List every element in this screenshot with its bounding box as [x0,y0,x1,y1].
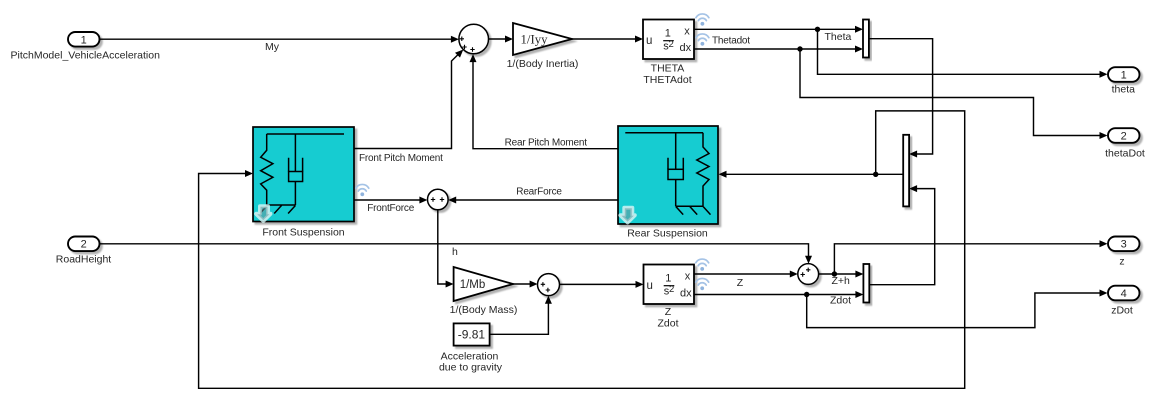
svg-text:PitchModel_VehicleAcceleration: PitchModel_VehicleAcceleration [11,50,161,62]
svg-text:2: 2 [669,39,674,50]
svg-text:u: u [647,280,653,292]
svg-text:x: x [684,26,690,38]
svg-text:3: 3 [1121,239,1127,251]
svg-text:dx: dx [680,42,692,54]
wire Thetadot dx output to mux [694,36,863,53]
junction on Zdot wire [804,292,809,297]
svg-text:2: 2 [1121,130,1127,142]
svg-text:Z: Z [665,306,672,318]
svg-text:FrontForce: FrontForce [367,203,415,214]
svg-text:Thetadot: Thetadot [712,36,750,47]
svg-text:2: 2 [81,239,87,251]
sum block forces [428,189,449,210]
outport 3 z [1108,237,1140,268]
outport 4 zDot [1108,286,1140,317]
inport 1 PitchModel_VehicleAcceleration [11,32,161,62]
subsystem Front Suspension [253,127,354,238]
svg-text:Zdot: Zdot [830,295,851,307]
svg-text:4: 4 [1121,288,1127,300]
wire constant to sum [490,296,552,335]
svg-text:-9.81: -9.81 [458,328,486,342]
wire gain 1/Mb to sum [513,281,538,288]
wire mux output up to state mux [869,185,934,285]
wire Zdot to mux [694,291,863,298]
svg-text:Front Pitch Moment: Front Pitch Moment [359,153,443,164]
wire Theta branch to outport theta [818,29,1108,78]
integrator THETA THETAdot [643,20,694,87]
wire Rear Pitch Moment [470,54,619,149]
rear suspension ground [676,206,711,214]
svg-text:thetaDot: thetaDot [1105,147,1145,159]
wire states to Rear Suspension [719,171,904,178]
wire h RoadHeight to Z+h sum [100,244,813,264]
sum block pitch moments [459,24,489,54]
gain 1/Iyy [507,23,579,70]
wire Zdot branch to outport zDot [807,290,1108,328]
svg-text:z: z [1119,256,1124,268]
wire My (inport 1 to pitch sum) [100,36,459,53]
wire Front Pitch Moment [354,50,463,164]
front suspension damper [267,134,344,205]
rear suspension link badge [620,208,634,223]
subsystem Rear Suspension [618,126,718,239]
svg-text:2: 2 [669,284,674,295]
front suspension ground [260,205,296,214]
svg-text:Zdot: Zdot [657,317,678,329]
svg-text:RearForce: RearForce [516,187,562,198]
wire mux output down to state mux [869,39,933,158]
outport 1 theta [1108,67,1140,95]
junction on Theta wire [815,27,820,32]
front suspension spring [261,134,273,205]
wire FrontForce [354,197,427,214]
wire Z to sum Z+h [694,271,798,290]
svg-text:zDot: zDot [1111,304,1133,316]
svg-text:Z+h: Z+h [832,275,851,287]
wire Z+h to mux [819,271,864,288]
wire force sum to gain 1/Mb [438,210,454,287]
svg-text:Theta: Theta [825,31,852,43]
svg-text:1: 1 [81,34,87,46]
logging badge on FrontForce [356,184,369,196]
mux Z+h Zdot [863,264,869,303]
logging badge on Theta output [696,14,709,26]
svg-text:1/(Body Inertia): 1/(Body Inertia) [507,58,579,70]
mux Theta Thetadot [863,20,869,58]
wire z branch to outport z [834,240,1107,274]
svg-text:My: My [265,41,280,53]
svg-text:THETAdot: THETAdot [643,74,691,86]
svg-text:THETA: THETA [651,63,685,75]
junction on states wire [873,172,878,177]
wire Theta x output to mux [694,26,863,33]
logging badge on Zdot output [696,278,709,290]
svg-text:Rear Pitch Moment: Rear Pitch Moment [505,137,588,148]
svg-text:RoadHeight: RoadHeight [56,253,112,265]
wire states feedback to Front Suspension [199,111,965,388]
sum block force plus gravity [538,274,560,296]
rear suspension spring [697,133,709,207]
svg-text:due to gravity: due to gravity [439,362,503,374]
wire RearForce [448,187,618,204]
rear suspension damper [625,133,703,207]
svg-text:1/Iyy: 1/Iyy [520,33,548,47]
junction on Thetadot wire [797,46,802,51]
wire sum to integrator Z [560,281,644,288]
logging badge on THETAdot output [696,34,709,46]
svg-text:Front Suspension: Front Suspension [262,226,344,238]
svg-text:1: 1 [665,28,671,40]
integrator Z Zdot [644,265,695,330]
svg-text:1/(Body Mass): 1/(Body Mass) [450,304,518,316]
gain 1/Mb [450,267,518,316]
svg-text:u: u [646,35,652,47]
mux states flipped [903,135,909,207]
svg-text:1/Mb: 1/Mb [460,279,486,291]
wire sum to gain 1/Iyy [489,36,514,43]
inport 2 RoadHeight [56,237,112,266]
constant -9.81 Acceleration due to gravity [439,323,503,373]
svg-text:h: h [452,246,458,258]
wire gain to integrator THETA [572,36,643,43]
wire Thetadot branch to outport thetaDot [800,49,1108,139]
svg-text:Rear Suspension: Rear Suspension [627,227,708,239]
svg-text:1: 1 [665,273,671,285]
junction on Z+h wire [832,271,837,276]
front suspension link badge [256,206,270,221]
sum block Z+h [798,264,819,285]
logging badge on Z output [696,259,709,271]
svg-text:1: 1 [1121,69,1127,81]
svg-text:Z: Z [737,277,744,289]
svg-text:dx: dx [680,287,692,299]
svg-text:x: x [685,271,691,283]
outport 2 thetaDot [1105,128,1145,159]
svg-text:theta: theta [1112,84,1136,96]
